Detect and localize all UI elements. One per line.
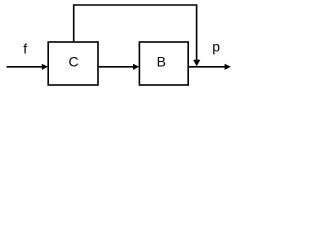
svg-text:f: f — [23, 41, 27, 57]
svg-text:p: p — [212, 39, 220, 55]
svg-text:B: B — [157, 53, 166, 69]
svg-text:C: C — [68, 53, 78, 69]
